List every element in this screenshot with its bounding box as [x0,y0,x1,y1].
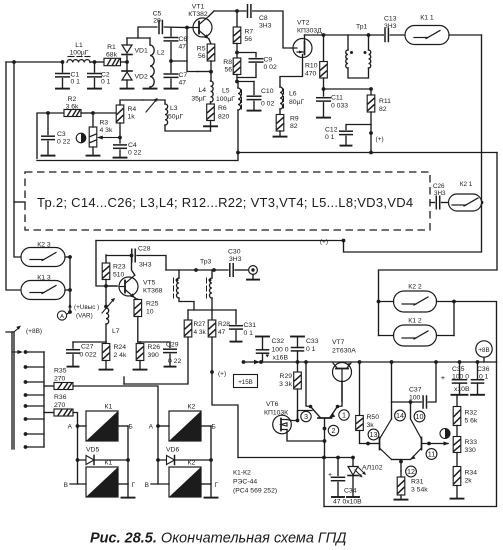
svg-text:C30: C30 [228,249,241,256]
wire tp3 top [166,269,228,271]
svg-text:VT1: VT1 [192,4,205,11]
wire VT6 source [287,430,325,442]
ground C29 [165,366,176,368]
resistor R9 [279,109,281,115]
capacitor C11 [323,89,325,96]
node plus rail [342,239,346,243]
wire K right to rail [454,302,497,363]
svg-text:3 54k: 3 54k [411,487,428,494]
node C3 top [46,111,50,115]
node A1 [61,60,65,64]
svg-text:R4: R4 [128,106,137,113]
node e1 [323,427,327,431]
svg-text:0 033: 0 033 [331,103,348,110]
svg-text:Тр.2; С14...С26; L3,L4; R12...: Тр.2; С14...С26; L3,L4; R12...R22; VT3,V… [37,195,413,210]
ground R24 [100,369,113,371]
wire osc bottom rail [37,160,235,162]
capacitor C2 [94,62,96,72]
wire Tp1 bottoms [348,68,369,78]
terminal out [249,266,258,275]
wire wiper arrow [12,351,19,353]
svg-text:А: А [68,424,73,431]
rail arrow [242,360,246,364]
svg-text:56: 56 [224,67,232,74]
svg-text:C29: C29 [166,342,179,349]
svg-text:0 1: 0 1 [325,134,335,141]
capacitor C10 [253,82,255,95]
wire K12 left [379,335,394,337]
svg-text:10: 10 [146,309,154,316]
wire K1 gnd [127,484,129,497]
pair2 left transistor [379,438,381,450]
pin 10 [414,411,425,422]
svg-text:C7: C7 [179,72,188,79]
wire L3 bottom [165,125,211,131]
node L7 top [104,305,108,309]
svg-text:1: 1 [342,411,346,420]
capacitor C6 [170,28,172,37]
wire R26 bottom [139,361,141,370]
wire tp3 prim bottom [179,298,194,310]
pin 1 [339,410,349,420]
resistor R26 [138,341,140,343]
svg-text:C13: C13 [384,16,397,23]
svg-text:0 02: 0 02 [261,101,274,108]
resistor R29 [297,362,299,372]
node r1 [259,360,263,364]
wire R25 bottom [137,317,139,343]
diode VD2 [126,62,128,70]
svg-text:К1 3: К1 3 [37,275,51,282]
svg-text:13: 13 [370,430,378,439]
wire K22 left [379,301,394,303]
resistor R31 [400,471,402,477]
svg-text:56: 56 [198,53,206,60]
wire main top rail [6,61,63,63]
svg-text:100: 100 [409,395,421,402]
node A term [68,310,72,314]
svg-text:C32: C32 [272,338,285,345]
svg-text:R33: R33 [465,439,478,446]
transistor VT1 [193,18,212,37]
trimmer mark [76,133,86,143]
capacitor C29 [140,342,170,348]
capacitor C26 [430,202,435,204]
capacitor C3 [47,113,49,135]
svg-text:L3: L3 [170,105,178,112]
wire top rail 2 [305,34,384,36]
ground VD2 [121,88,134,90]
node r5 [434,360,438,364]
svg-text:C34: C34 [344,488,357,495]
arrow R33 [444,442,450,446]
svg-text:390: 390 [148,352,160,359]
resistor R32 [453,407,461,426]
svg-text:R29: R29 [280,373,293,380]
capacitor C13 [382,34,384,36]
node r2 [296,360,300,364]
resistor R2 [64,110,81,117]
wire R7-R8 [236,44,238,59]
ground R26 [134,369,147,371]
svg-text:C35: C35 [452,366,465,373]
node em2 [399,460,403,464]
wire K rights [437,301,455,303]
wire C30 right [235,269,249,271]
terminal A circle [67,312,70,314]
svg-text:(+): (+) [218,371,226,378]
svg-text:C2: C2 [101,72,110,79]
capacitor C12 [346,125,371,130]
wire vt5 top rail [96,240,344,242]
wire R4 top [93,112,117,114]
svg-text:К1 2: К1 2 [408,318,422,325]
ground C4 [114,157,127,159]
svg-text:270: 270 [54,402,66,409]
node tp3 b [212,268,216,272]
svg-text:R27: R27 [194,321,206,328]
wire K right joins [65,256,70,258]
wire base drop [186,28,188,62]
svg-text:R50: R50 [367,414,380,421]
svg-text:+15В: +15В [238,379,253,386]
node led tap [351,456,355,460]
resistor R11 [370,89,372,95]
capacitor C28 [131,249,133,262]
wire VD1 top node [127,37,150,39]
svg-text:Г: Г [132,482,136,489]
relay coil K1 upper [86,411,118,441]
wire mid node [171,61,197,72]
wire branch line [238,457,353,459]
relay contact K1.3 [21,281,65,300]
svg-text:C27: C27 [81,344,94,351]
pin 12 [406,466,417,477]
wire R24 bottom [105,361,107,370]
svg-text:3 6k: 3 6k [66,104,79,111]
svg-text:100 0: 100 0 [272,347,289,354]
svg-text:R5: R5 [197,46,206,53]
svg-text:R1: R1 [107,44,116,51]
svg-text:VD6: VD6 [166,447,179,454]
node K23 right [68,255,72,259]
capacitor C36 [477,362,479,380]
svg-text:0 1: 0 1 [101,79,111,86]
svg-text:80µГ: 80µГ [289,99,304,106]
ground LED [347,496,359,498]
node R10 top [322,33,326,37]
resistor R24 [105,342,107,344]
wire VT2 source [280,55,303,88]
svg-text:VD2: VD2 [135,74,148,81]
svg-text:+: + [441,373,446,382]
svg-text:К1: К1 [105,460,113,467]
svg-text:5 6k: 5 6k [465,418,478,425]
svg-text:C9: C9 [264,57,273,64]
wire c37 right [428,362,436,402]
wire osc rail step [235,153,238,161]
wire C28 line [106,255,130,257]
wire pair2 left base [368,443,380,445]
svg-text:0 022: 0 022 [80,352,97,359]
relay coil K1 lower [86,467,118,497]
capacitor C37 [422,396,424,408]
svg-text:C33: C33 [306,338,319,345]
wire R4 bottom [119,123,121,143]
wire R34 bottom [456,486,458,499]
wire R10 bottom [323,78,325,89]
svg-text:14: 14 [396,411,404,420]
node e2 [323,439,327,443]
svg-text:R25: R25 [146,301,159,308]
svg-text:3k: 3k [367,422,375,429]
wire R9 bottom [279,131,281,136]
node VD junction [125,60,129,64]
capacitor C27 [72,342,74,348]
capacitor C31 [235,310,237,324]
svg-text:56: 56 [245,36,253,43]
svg-text:АЛ102: АЛ102 [362,465,383,472]
wire left vertical inner [14,62,21,257]
svg-text:C6: C6 [179,36,188,43]
inductor L2 [149,38,151,45]
svg-text:50µГ: 50µГ [168,114,183,121]
svg-text:C5: C5 [153,11,162,18]
svg-text:(+): (+) [376,136,384,143]
svg-text:C28: C28 [138,246,151,253]
wire K2 G [201,483,211,485]
arrow +8V [14,328,19,333]
relay contact K1.2 [394,325,437,346]
svg-text:К2 2: К2 2 [408,284,422,291]
svg-text:К1 1: К1 1 [420,15,434,22]
inductor L5 [237,82,239,89]
svg-text:0 22: 0 22 [128,150,141,157]
wire cap rail [73,341,106,343]
switch bus [43,352,45,447]
svg-text:R9: R9 [290,116,299,123]
ground C11 [317,117,330,119]
node VD6 r [209,458,213,462]
wire vt5 rail drop [96,241,117,287]
wire tp3 sec bottom [211,298,213,310]
wire R6 bottom [210,121,212,127]
wire R1 to VD node [121,61,128,63]
node C12 junction [369,131,373,135]
wire R27 bottom [124,337,188,384]
inductor L1 [67,60,90,63]
wire down border [323,458,325,507]
relay contact K2.1 [449,194,482,211]
svg-text:R36: R36 [54,394,67,401]
svg-text:КТ382: КТ382 [188,11,208,18]
svg-text:L6: L6 [289,91,297,98]
resistor R4 [116,105,124,123]
node C9 top [235,51,239,55]
svg-text:3Н3: 3Н3 [259,23,272,30]
wire R11 bottom [370,112,372,153]
svg-text:Б: Б [212,424,216,431]
diode VD6 [158,459,211,461]
resistor R23 [105,255,107,263]
ground C3 [42,155,55,157]
svg-text:0 1: 0 1 [244,330,254,337]
node R8 bottom [235,80,239,84]
node tp3 a [194,268,198,272]
svg-text:Рис. 28.5. Окончательная схема: Рис. 28.5. Окончательная схема ГПД [90,531,347,547]
node Tp1 sec top [367,33,371,37]
node c34 tap [336,456,340,460]
svg-text:0 1: 0 1 [479,374,489,381]
node b11 [427,442,431,446]
svg-text:11: 11 [428,450,435,459]
wire K2 B [201,425,211,427]
wire R26 top [139,342,141,344]
resistor R5 [207,44,215,61]
capacitor C1 [62,62,64,72]
svg-text:C10: C10 [261,88,274,95]
svg-text:+8В: +8В [478,347,489,354]
node VD5 l [76,458,80,462]
transistor VT7 [333,363,352,382]
svg-text:C31: C31 [244,322,257,329]
wire K1 B [118,425,128,427]
node b13 [366,442,370,446]
node r3 [358,360,362,364]
svg-text:820: 820 [218,114,230,121]
node C11 junction [322,87,326,91]
relay coil K2 upper [169,411,201,441]
svg-text:100µГ: 100µГ [216,96,235,103]
svg-text:R23: R23 [113,264,126,271]
svg-text:КТ368: КТ368 [143,288,163,295]
relay contact K2.3 [21,248,65,267]
svg-text:VT5: VT5 [143,280,156,287]
capacitor C8 [247,5,249,18]
wire stub to block [14,201,25,203]
wire R2 left [37,113,64,159]
svg-text:L2: L2 [157,50,165,57]
wire supply rail [238,152,497,154]
wire K1 V [77,460,79,484]
svg-text:100µГ: 100µГ [70,50,89,57]
wire left vertical outer [6,62,21,290]
transformer Tp1 primary [347,35,349,50]
node base junction [185,26,189,30]
pair2 right transistor [421,438,423,450]
svg-text:C36: C36 [477,366,490,373]
svg-text:35µГ: 35µГ [191,96,206,103]
trimmer mark2 [440,429,450,439]
wire R5 bottom [210,61,212,72]
svg-text:VT7: VT7 [332,339,345,346]
svg-text:C1: C1 [71,72,80,79]
svg-text:R31: R31 [411,479,424,486]
svg-text:В: В [145,482,149,489]
svg-text:А: А [149,424,154,431]
wire wiper link [110,137,120,139]
svg-text:Б: Б [129,424,133,431]
diode VD1 [126,56,128,62]
svg-text:100 0: 100 0 [452,374,469,381]
svg-text:510: 510 [113,272,125,279]
svg-text:Тр3: Тр3 [200,259,212,266]
inductor L4 [210,72,212,81]
svg-text:3Н3: 3Н3 [384,23,397,30]
transformer Tp3 primary [178,270,180,278]
svg-text:82: 82 [290,123,298,130]
ground K1 [122,497,135,499]
node K22 left [377,300,381,304]
relay contact K1.1 [405,26,449,45]
capacitor C30 [229,264,231,277]
svg-text:C11: C11 [331,95,343,102]
svg-text:(+Uвыс ): (+Uвыс ) [74,304,99,311]
wire K2 V [157,460,159,484]
svg-text:(РС4 569 252): (РС4 569 252) [233,488,277,495]
svg-text:А: А [60,314,64,320]
svg-text:2k: 2k [465,478,473,485]
svg-text:C3: C3 [57,131,66,138]
svg-text:R34: R34 [465,470,478,477]
node vt5 collector [130,254,134,258]
ground out [252,274,254,279]
inductor L7 [105,286,107,308]
dashed block [25,172,430,230]
capacitor C4 [114,144,127,146]
switch contacts [26,351,45,353]
transformer Tp3 secondary [211,270,213,278]
gnd C31 [231,341,242,343]
node K right [452,300,456,304]
arrow uvys [69,306,71,313]
svg-text:R24: R24 [114,344,127,351]
svg-text:L7: L7 [112,328,120,335]
relay contact K2.2 [394,291,437,312]
pair1 emitter bar [318,417,332,419]
svg-text:0 02: 0 02 [264,64,277,71]
transistor VT2 fet [293,39,312,58]
capacitor C35 electrolytic [459,362,461,380]
svg-text:VT6: VT6 [266,401,279,408]
wire pair1 emitter [324,418,326,458]
svg-text:VT2: VT2 [297,20,310,27]
wire L5 top [237,81,254,83]
svg-text:0 22: 0 22 [57,139,70,146]
ground C2 [88,88,101,90]
node K1 A [76,424,80,428]
svg-text:2: 2 [332,426,336,435]
svg-text:L5: L5 [222,88,230,95]
inductor L3 [143,100,165,104]
transformer Tp1 secondary [368,35,370,50]
svg-text:VD5: VD5 [86,447,99,454]
resistor R50 [359,362,361,416]
svg-text:C12: C12 [325,127,338,134]
svg-text:К2: К2 [188,404,196,411]
wire R50 bottom [360,431,369,444]
svg-text:82: 82 [379,106,387,113]
wire VT7 base [341,382,343,402]
wiper arrow R3 [101,137,110,139]
wire R35 to K2A [73,386,158,426]
svg-text:270: 270 [54,376,66,383]
node r4 [390,360,394,364]
svg-text:R3: R3 [100,120,109,127]
wire R8 bottom [236,75,238,83]
ground R34 [451,498,464,500]
capacitor C32 [262,353,264,362]
